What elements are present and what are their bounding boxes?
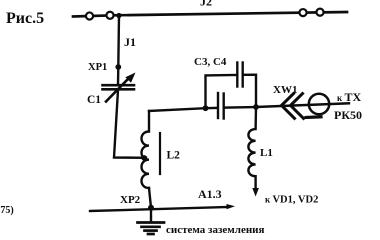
svg-text:J1: J1	[124, 35, 136, 49]
arrow to VD1 VD2	[252, 188, 259, 197]
svg-text:J2: J2	[200, 0, 212, 9]
svg-text:к VD1, VD2: к VD1, VD2	[265, 195, 318, 206]
wire main middle line right part through XW1	[225, 103, 350, 107]
wire J1 vertical	[117, 16, 120, 68]
svg-text:РК50: РК50	[334, 108, 362, 122]
inductor L1	[248, 107, 256, 189]
wire main middle line left part	[149, 108, 217, 111]
svg-text:C3, C4: C3, C4	[194, 56, 227, 68]
capacitor C1 arrow	[106, 79, 128, 102]
connector XW1 chevron inner	[291, 94, 304, 119]
capacitor C4 plates	[236, 63, 238, 87]
svg-text:XW1: XW1	[273, 84, 297, 96]
svg-text:XP1: XP1	[88, 62, 107, 73]
node L2 tap	[141, 155, 147, 161]
svg-text:к ТХ: к ТХ	[337, 90, 361, 104]
capacitor C1 (variable) plates	[103, 84, 135, 87]
L2 core bar	[159, 133, 161, 174]
svg-text:(75): (75)	[0, 205, 14, 216]
node XP2	[148, 205, 154, 211]
svg-text:XP2: XP2	[120, 194, 141, 206]
wire L2 bottom to XP2	[149, 188, 151, 208]
wire XP1 to C1	[117, 67, 120, 85]
arrowhead bus A1.3	[227, 204, 236, 209]
wire bus A1.3	[90, 207, 228, 211]
connector XW1 chevron outer	[282, 94, 295, 119]
node C3 left junction	[203, 105, 209, 111]
node XP1	[115, 64, 121, 70]
ground symbol	[150, 208, 152, 222]
svg-text:A1.3: A1.3	[198, 187, 222, 201]
wire C1 down and to L2 tap	[114, 90, 146, 158]
node C3 right junction	[253, 104, 259, 110]
svg-text:L1: L1	[260, 147, 273, 159]
wire top antenna line	[73, 12, 347, 17]
connector circles right pair (line J2 break)	[299, 9, 306, 16]
svg-text:Рис.5: Рис.5	[6, 10, 44, 27]
coax cable loop symbol	[309, 94, 329, 114]
svg-text:система заземления: система заземления	[166, 224, 265, 236]
connector circles left pair (line J1 break)	[86, 12, 93, 19]
svg-text:L2: L2	[167, 150, 181, 162]
inductor L2	[142, 111, 150, 188]
capacitor C3 plates	[217, 93, 219, 118]
node junction top of J1	[116, 13, 121, 18]
svg-text:C1: C1	[87, 94, 101, 106]
wire C4 loop	[206, 75, 237, 108]
